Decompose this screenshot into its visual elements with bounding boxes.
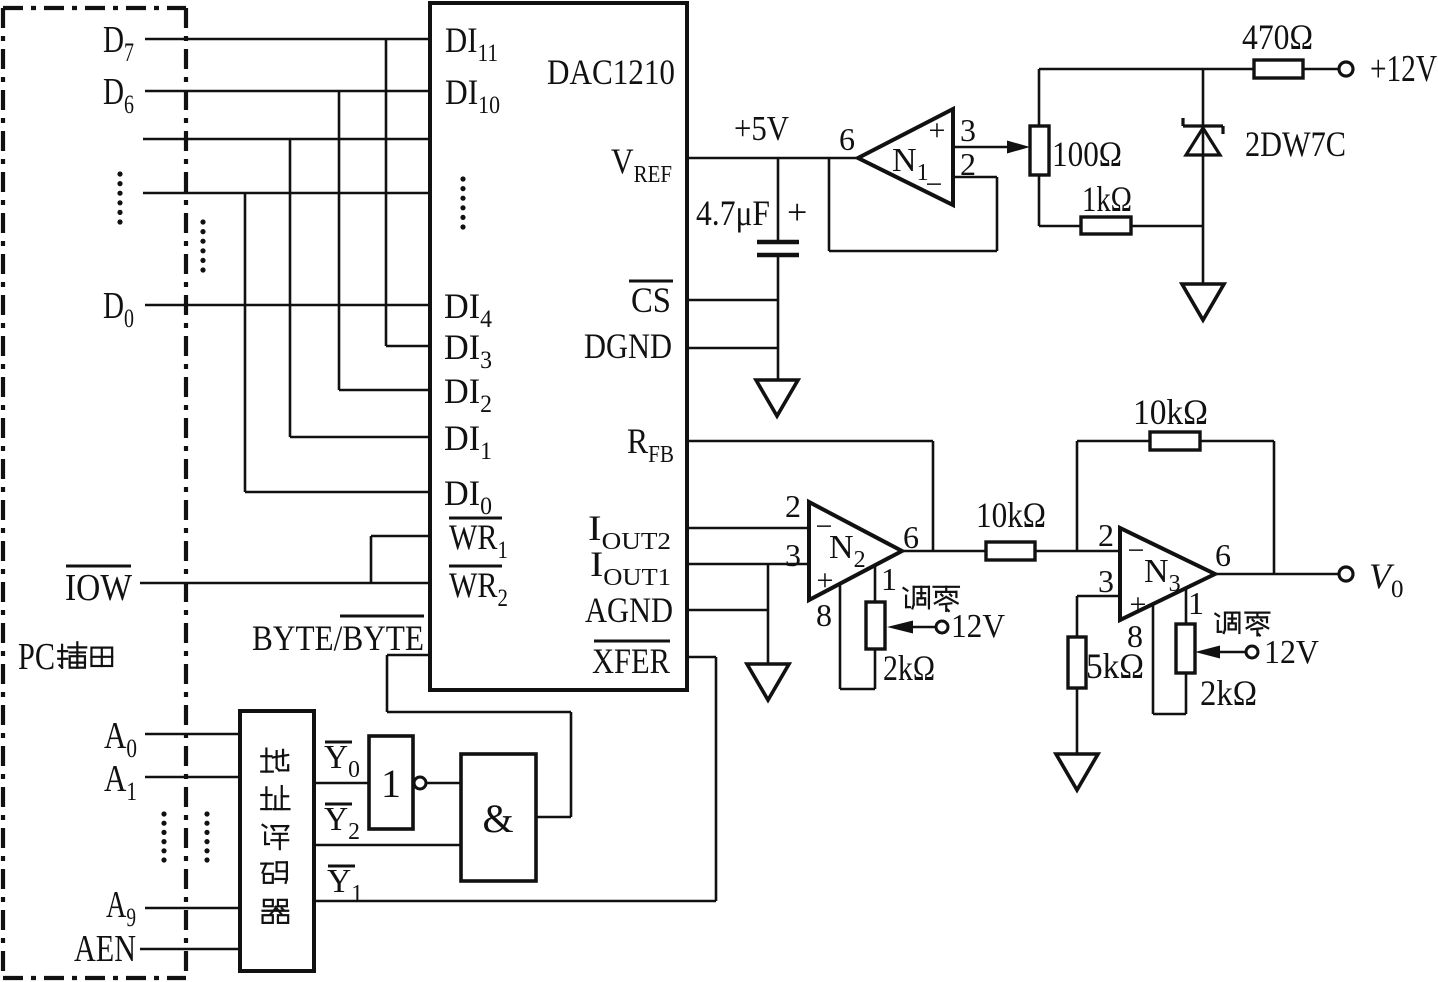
svg-text:+: + [929, 114, 946, 147]
svg-text:−: − [926, 168, 943, 201]
wire VREF to N1 [687, 157, 859, 160]
svg-text:+5V: +5V [734, 109, 789, 148]
potentiometer 2kΩ N3 [1152, 604, 1155, 714]
svg-text:+: + [787, 192, 807, 232]
wire Y1 to XFER [314, 900, 716, 903]
wire +12V rail [1039, 68, 1254, 71]
zener diode 2DW7C [1202, 69, 1205, 284]
svg-text:3: 3 [960, 112, 976, 148]
resistor 10kΩ feedback [1150, 432, 1200, 450]
ellipsis DI pins [460, 176, 465, 229]
zero-adjust arrow N2 [887, 621, 913, 634]
capacitor 4.7uF [777, 158, 780, 240]
ground DGND [756, 380, 798, 416]
wire Y2 to AND gate [314, 844, 461, 847]
wire D6 branch down to DI2 [338, 91, 341, 390]
svg-text:+12V: +12V [1370, 48, 1437, 90]
svg-text:PC: PC [18, 636, 55, 678]
wire D5 branch down to DI1 [289, 139, 292, 437]
svg-text:2DW7C: 2DW7C [1245, 124, 1346, 164]
wire D7 to DI11 [145, 38, 430, 41]
svg-text:CS: CS [631, 280, 671, 320]
label 调零 N2 [904, 587, 929, 609]
svg-text:470Ω: 470Ω [1242, 17, 1313, 57]
svg-text:−: − [1128, 534, 1145, 567]
svg-text:12V: 12V [951, 608, 1005, 645]
wire 470 to terminal [1303, 68, 1339, 71]
svg-text:6: 6 [1215, 537, 1231, 573]
svg-text:+: + [817, 564, 834, 597]
wire A9 to decoder [145, 907, 240, 910]
ground AGND [747, 664, 789, 700]
wire IOUT1/AGND to ground [767, 564, 770, 664]
svg-text:8: 8 [816, 597, 832, 633]
svg-text:2kΩ: 2kΩ [1200, 673, 1257, 713]
inverter bubble [414, 777, 426, 789]
svg-text:100Ω: 100Ω [1052, 134, 1122, 174]
terminal V0 [1339, 567, 1353, 581]
svg-text:3: 3 [1098, 563, 1114, 599]
wire D4 branch down to DI0 [244, 193, 247, 492]
wire IOW to WR2 [140, 582, 430, 585]
wire A1 to decoder [145, 776, 240, 779]
resistor 1kΩ [1081, 217, 1131, 234]
ground zener [1182, 284, 1224, 320]
svg-text:+: + [1130, 588, 1147, 621]
wire IOUT2 to N2 pin2 [687, 527, 809, 530]
wire N1 pin3 to 100ohm wiper [953, 146, 1010, 149]
svg-text:AGND: AGND [585, 590, 673, 630]
DAC1210 IC box [430, 3, 687, 690]
wire bubble to AND [426, 782, 461, 785]
NOT gate (1) [369, 736, 413, 829]
svg-text:DAC1210: DAC1210 [547, 52, 675, 92]
svg-text:AEN: AEN [74, 928, 136, 970]
svg-text:6: 6 [839, 121, 855, 157]
wire 10k to N3 [1035, 550, 1120, 553]
wire CS to ground node [687, 299, 778, 302]
svg-text:10kΩ: 10kΩ [976, 495, 1046, 535]
svg-text:DGND: DGND [584, 326, 672, 366]
svg-text:2: 2 [785, 488, 801, 524]
svg-text:XFER: XFER [592, 641, 670, 681]
wire DGND to ground node [687, 347, 778, 350]
label 调零 N3 [1215, 613, 1239, 633]
svg-text:10kΩ: 10kΩ [1133, 392, 1208, 432]
wire N3 feedback 10k [1076, 441, 1079, 551]
wire A0 to decoder [145, 733, 240, 736]
svg-text:12V: 12V [1264, 634, 1319, 671]
terminal 12V N3 [1246, 646, 1258, 658]
wire D5 row to DAC [143, 138, 430, 141]
ellipsis data bus left [117, 171, 122, 224]
svg-text:1kΩ: 1kΩ [1082, 179, 1132, 219]
address decoder box 地址译码器 [240, 711, 314, 971]
ellipsis data bus right [200, 219, 205, 272]
wire D4 row to DAC [143, 192, 430, 195]
resistor 5kΩ [1068, 637, 1086, 688]
wire bottom rail with 1k [1039, 225, 1203, 228]
wire N3 pin3 to 5k [1077, 595, 1120, 598]
ground 5k [1056, 754, 1098, 790]
wire BYTE pin to AND output [387, 654, 430, 657]
svg-text:BYTE/BYTE: BYTE/BYTE [252, 618, 424, 658]
wire N2 output [902, 550, 986, 553]
wire RFB feedback [687, 440, 933, 443]
svg-text:4.7μF: 4.7μF [696, 193, 770, 233]
wire D6 to DI10 [145, 90, 430, 93]
zero-adjust arrow N3 [1195, 646, 1220, 659]
PC bus slot dashed frame [3, 6, 186, 10]
potentiometer 2kΩ N2 [839, 584, 842, 689]
wire D0 to DI4 [145, 304, 430, 307]
AND gate (&) [461, 754, 536, 881]
svg-text:1: 1 [1188, 585, 1204, 621]
resistor 10kΩ interstage [986, 542, 1035, 560]
terminal 12V N2 [936, 621, 948, 633]
wire AEN to decoder [140, 948, 240, 951]
svg-text:5kΩ: 5kΩ [1086, 646, 1144, 686]
svg-text:2kΩ: 2kΩ [883, 648, 935, 688]
svg-text:&: & [482, 796, 513, 841]
potentiometer 100Ω [1038, 69, 1041, 126]
terminal +12V [1339, 62, 1353, 76]
svg-text:6: 6 [903, 519, 919, 555]
wire N3 output [1215, 573, 1339, 576]
op-amp N2 [809, 502, 902, 600]
wire IOUT1 to N2 pin3 [687, 563, 809, 566]
wire Y0 to NOT gate [314, 782, 369, 785]
wire AGND [687, 609, 768, 612]
svg-text:IOW: IOW [65, 567, 132, 609]
wire N1 pin2 feedback [828, 158, 831, 251]
svg-text:1: 1 [881, 561, 897, 597]
resistor 470Ω [1254, 60, 1303, 78]
wire branch to WR1 [370, 536, 373, 583]
svg-text:2: 2 [1098, 517, 1114, 553]
svg-text:3: 3 [785, 537, 801, 573]
op-amp N3 [1120, 528, 1215, 620]
op-amp N1 (points left) [858, 109, 953, 205]
wire D7 branch down to DI3 [385, 39, 388, 346]
svg-text:1: 1 [381, 761, 401, 806]
ellipsis address left [161, 811, 166, 862]
ellipsis address right [204, 811, 209, 862]
